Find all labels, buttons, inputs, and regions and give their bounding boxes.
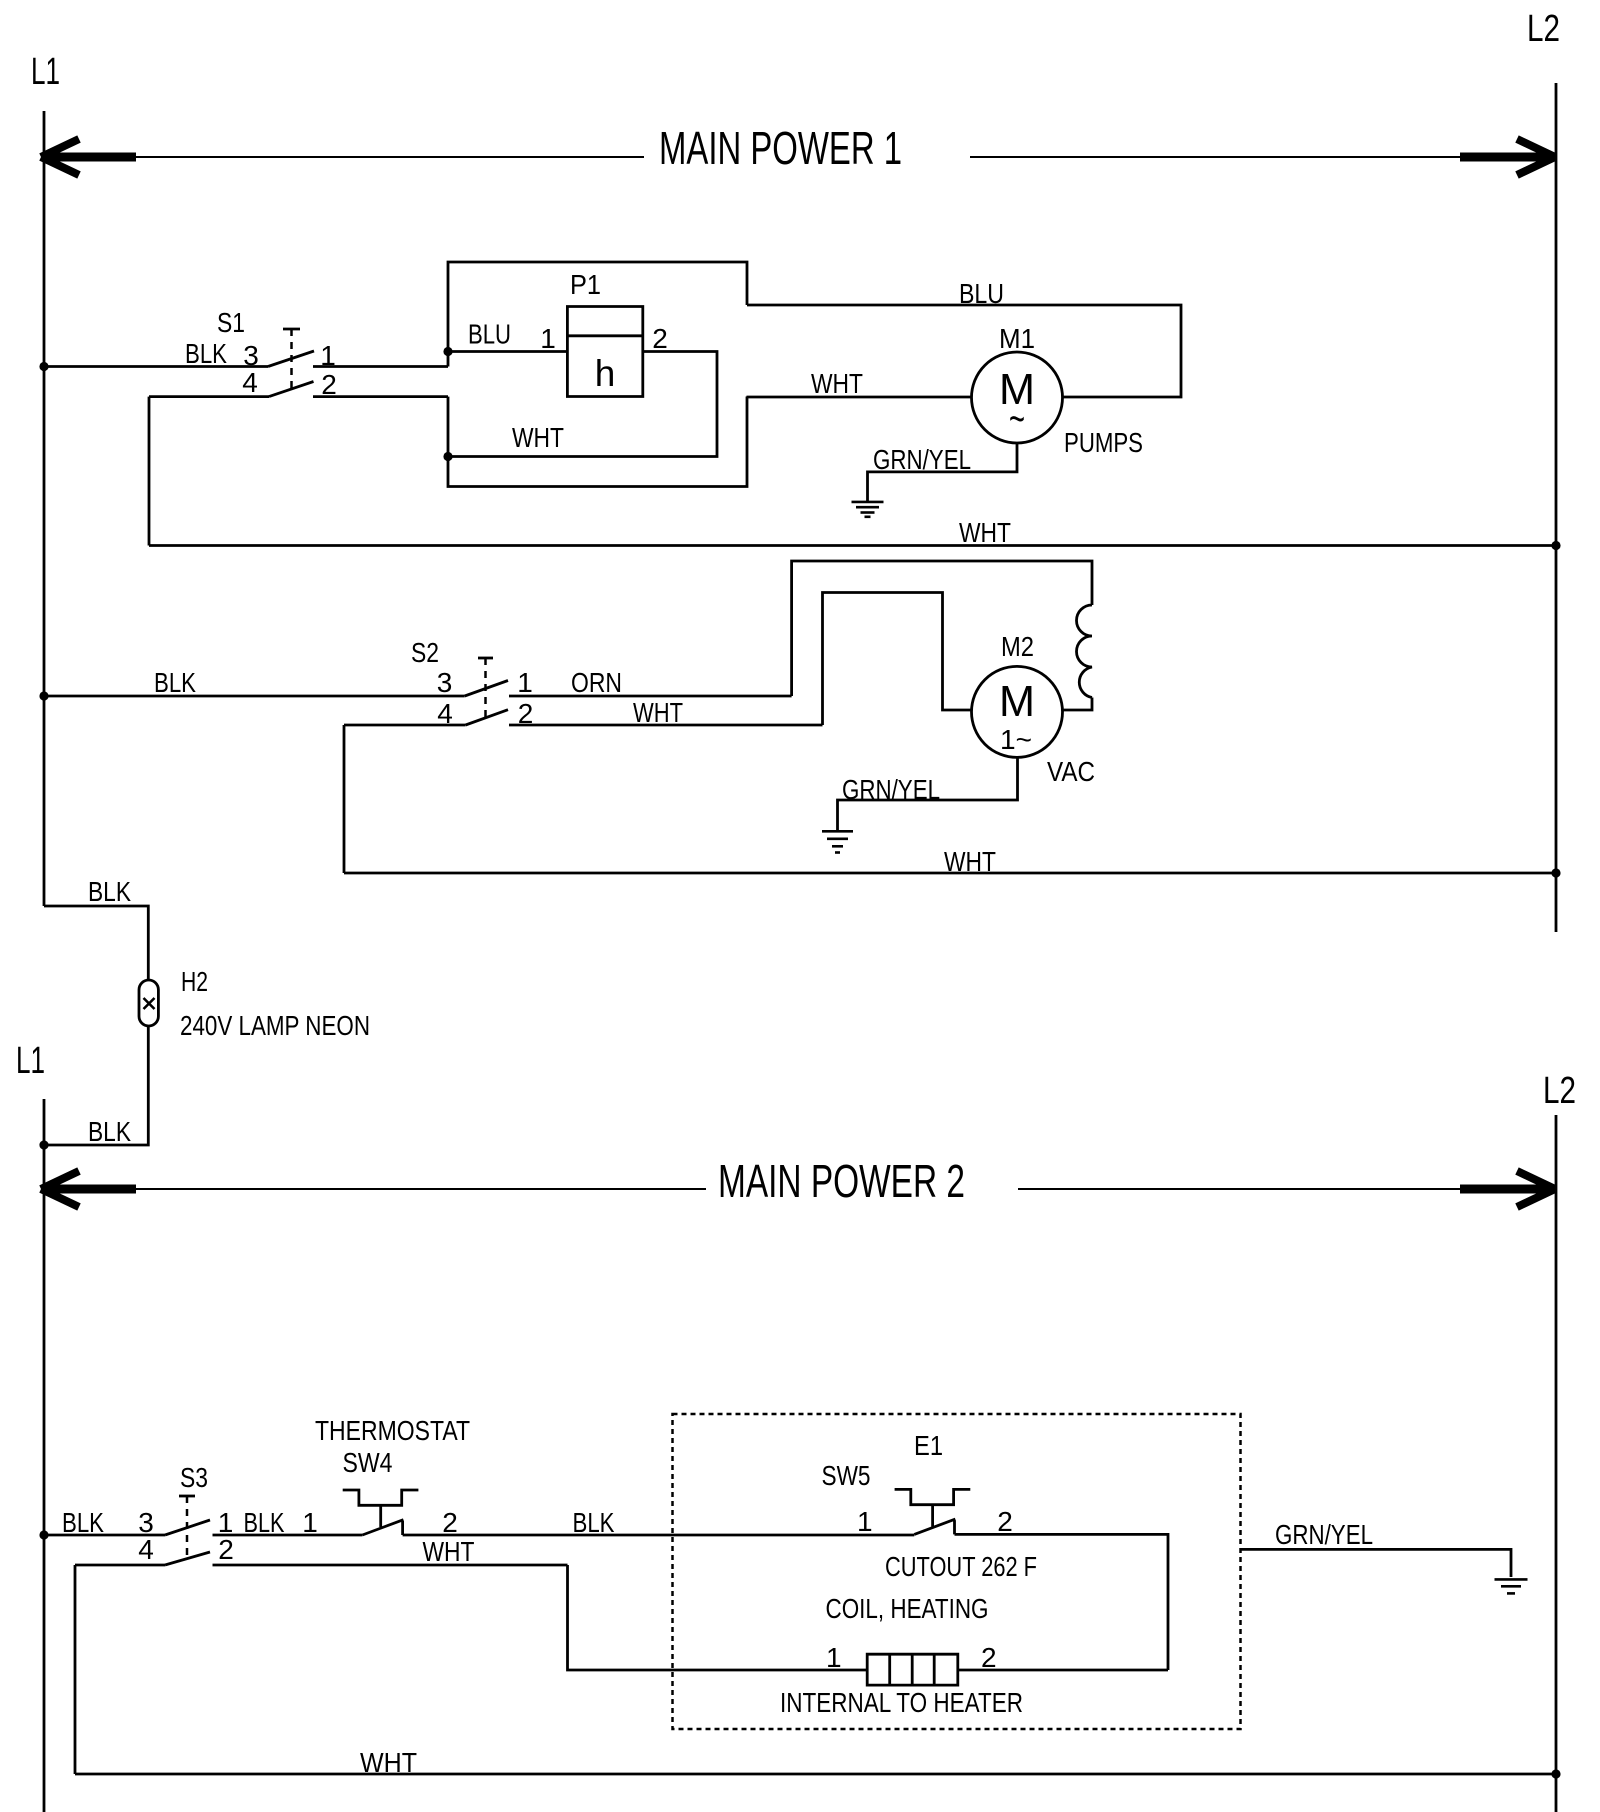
node junction L1-S3: [39, 1530, 48, 1539]
svg-text:INTERNAL TO HEATER: INTERNAL TO HEATER: [780, 1687, 1023, 1718]
node junction L1-S1: [39, 362, 48, 371]
svg-text:1: 1: [857, 1506, 873, 1537]
svg-text:2: 2: [442, 1507, 458, 1538]
switch S2 pole 3-1 wire: [44, 695, 465, 698]
ground M1: [852, 501, 884, 504]
svg-text:SW4: SW4: [343, 1447, 393, 1478]
svg-text:1: 1: [540, 323, 556, 354]
wire GRN/YEL to ground: [1241, 1549, 1512, 1577]
component motor M2 circle: [972, 666, 1063, 757]
node junction WHT2-L2: [1551, 868, 1560, 877]
switch S1 pole 3-1 wire: [44, 365, 268, 368]
svg-text:E1: E1: [914, 1430, 943, 1461]
switch S1 blade 4-2: [269, 382, 314, 397]
svg-text:2: 2: [997, 1506, 1013, 1537]
component lamp H2 envelope: [139, 980, 158, 1026]
svg-text:S1: S1: [217, 307, 245, 338]
switch S3 blade 4-2: [165, 1552, 210, 1565]
svg-text:1~: 1~: [1000, 724, 1032, 755]
wire coil to M2: [1062, 698, 1092, 711]
switch S1 contact 2 wire: [313, 395, 448, 398]
svg-text:BLK: BLK: [185, 338, 227, 369]
svg-text:VAC: VAC: [1047, 756, 1095, 787]
wire P1 pin1: [448, 350, 567, 353]
svg-text:M: M: [999, 677, 1035, 726]
switch S3 contact 1 wire: [213, 1534, 363, 1537]
component motor M1 circle: [972, 352, 1063, 443]
component thermostat SW4: [343, 1490, 419, 1527]
svg-text:MAIN POWER 1: MAIN POWER 1: [659, 122, 902, 174]
wire WHT circuit1 bottom: [149, 544, 1556, 547]
svg-text:S2: S2: [411, 637, 439, 668]
svg-text:M1: M1: [999, 323, 1035, 354]
wire L2 bottom vertical rail: [1555, 1115, 1558, 1812]
wire MAIN POWER 1 span arrow right: [970, 156, 1462, 158]
switch S2 contact 2 wire: [509, 724, 823, 727]
switch S2 contact 1 wire: [509, 695, 792, 698]
svg-text:S3: S3: [180, 1462, 208, 1493]
wire SW5 to heater pin2: [955, 1534, 1169, 1670]
switch S3 pole 4-2 wire: [75, 1564, 165, 1567]
svg-text:WHT: WHT: [959, 517, 1011, 548]
node junction WHT3-L2: [1551, 1769, 1560, 1778]
svg-text:~: ~: [1009, 395, 1025, 443]
component P1 pump box: [567, 307, 642, 397]
ground heater chassis: [1495, 1578, 1528, 1581]
svg-text:MAIN POWER 2: MAIN POWER 2: [718, 1155, 965, 1207]
svg-text:L1: L1: [31, 51, 60, 93]
svg-text:2: 2: [218, 1534, 234, 1565]
wire MAIN POWER 1 span arrow left: [44, 153, 136, 162]
svg-text:BLU: BLU: [468, 319, 511, 350]
svg-text:1: 1: [826, 1642, 842, 1673]
svg-text:WHT: WHT: [633, 697, 683, 728]
node junction lamp-L1: [39, 1140, 48, 1149]
wire lamp bottom to L1: [44, 1026, 148, 1145]
component lamp H2 cross: [144, 998, 155, 1009]
component heater enclosure dashed box: [673, 1414, 1241, 1729]
svg-text:GRN/YEL: GRN/YEL: [873, 444, 971, 475]
svg-text:CUTOUT 262 F: CUTOUT 262 F: [885, 1551, 1037, 1582]
wire L1 top vertical rail: [43, 111, 46, 906]
svg-text:1: 1: [517, 667, 533, 698]
ground M2: [822, 830, 853, 833]
svg-text:BLK: BLK: [88, 876, 131, 907]
node junction WHT-L2: [1551, 541, 1560, 550]
svg-text:h: h: [595, 353, 616, 394]
wire M1 to ground: [868, 443, 1018, 501]
svg-text:2: 2: [652, 323, 668, 354]
wire P1 outer loop bottom: [448, 397, 747, 487]
svg-text:ORN: ORN: [571, 667, 622, 698]
switch S2 blade 3-1: [465, 681, 508, 697]
svg-text:BLK: BLK: [62, 1507, 104, 1538]
wire M2 to ground: [838, 757, 1018, 830]
svg-text:BLK: BLK: [154, 667, 196, 698]
svg-text:WHT: WHT: [944, 846, 996, 877]
svg-text:BLK: BLK: [573, 1507, 615, 1538]
wire BLU to M1: [747, 305, 1181, 397]
switch S1 blade 3-1: [268, 351, 314, 367]
wire P1 outer loop top-left: [448, 262, 747, 367]
component coil M2 winding: [1077, 605, 1093, 698]
wire WHT to M1: [747, 396, 973, 399]
switch S3 contact 2 wire: [213, 1564, 568, 1567]
wire L1 to lamp top: [44, 906, 148, 980]
svg-text:L1: L1: [16, 1040, 45, 1082]
svg-text:GRN/YEL: GRN/YEL: [842, 774, 940, 805]
wire heater pin2: [958, 1669, 1168, 1672]
svg-text:COIL, HEATING: COIL, HEATING: [826, 1593, 989, 1624]
svg-text:4: 4: [242, 367, 258, 398]
svg-text:P1: P1: [570, 269, 601, 300]
wire WHT circuit2 bottom: [344, 872, 1556, 875]
switch S3 link: [179, 1495, 195, 1498]
switch S1 contact 1 wire: [313, 365, 448, 368]
component thermostat SW5: [895, 1489, 971, 1526]
svg-text:WHT: WHT: [360, 1747, 417, 1778]
svg-text:PUMPS: PUMPS: [1064, 427, 1143, 458]
switch S2 pole 4-2 wire: [344, 724, 466, 727]
svg-text:WHT: WHT: [423, 1536, 475, 1567]
wire SW4 to SW5: [403, 1534, 915, 1537]
switch S3 blade 3-1: [165, 1520, 210, 1535]
wire S3 to heater pin1: [568, 1565, 868, 1670]
node junction L1-S2: [39, 691, 48, 700]
svg-text:WHT: WHT: [512, 422, 564, 453]
svg-text:L2: L2: [1527, 8, 1560, 50]
node junction BLU branch: [443, 347, 452, 356]
svg-text:BLK: BLK: [88, 1116, 131, 1147]
svg-text:1: 1: [302, 1507, 318, 1538]
svg-text:THERMOSTAT: THERMOSTAT: [315, 1415, 470, 1446]
wire S1 pole4 drop to WHT: [148, 397, 151, 546]
switch S2 blade 4-2: [466, 710, 508, 725]
switch S1 link: [283, 328, 300, 331]
svg-text:3: 3: [437, 667, 453, 698]
wire MAIN POWER 2 span arrow right: [1018, 1188, 1462, 1190]
wire P1 pin2 return: [448, 352, 717, 457]
wire L2 top vertical rail: [1555, 83, 1558, 932]
svg-text:H2: H2: [181, 966, 208, 997]
svg-text:SW5: SW5: [822, 1460, 871, 1491]
svg-text:240V LAMP NEON: 240V LAMP NEON: [180, 1010, 370, 1041]
node junction WHT branch: [443, 452, 452, 461]
switch S1 pole 4-2 wire: [149, 395, 269, 398]
wire WHT inner loop to M2: [823, 593, 973, 726]
wire S3 pole4 drop: [74, 1565, 77, 1774]
wire L1 bottom vertical rail: [43, 1099, 46, 1812]
svg-text:BLU: BLU: [959, 278, 1004, 309]
svg-text:4: 4: [138, 1534, 154, 1565]
component heater element E1: [867, 1654, 958, 1685]
wire S2 pole4 drop: [343, 725, 346, 873]
svg-text:L2: L2: [1543, 1070, 1576, 1112]
svg-text:2: 2: [981, 1642, 997, 1673]
wire WHT circuit3 bottom: [75, 1773, 1556, 1776]
wire MAIN POWER 2 span arrow left: [44, 1185, 136, 1194]
svg-text:WHT: WHT: [811, 368, 863, 399]
svg-text:GRN/YEL: GRN/YEL: [1275, 1519, 1373, 1550]
wire ORN loop to coil: [792, 561, 1092, 696]
svg-text:BLK: BLK: [244, 1507, 285, 1538]
switch S3 pole 3-1 wire: [44, 1534, 165, 1537]
svg-text:M2: M2: [1001, 631, 1034, 662]
switch S2 link: [478, 657, 493, 660]
